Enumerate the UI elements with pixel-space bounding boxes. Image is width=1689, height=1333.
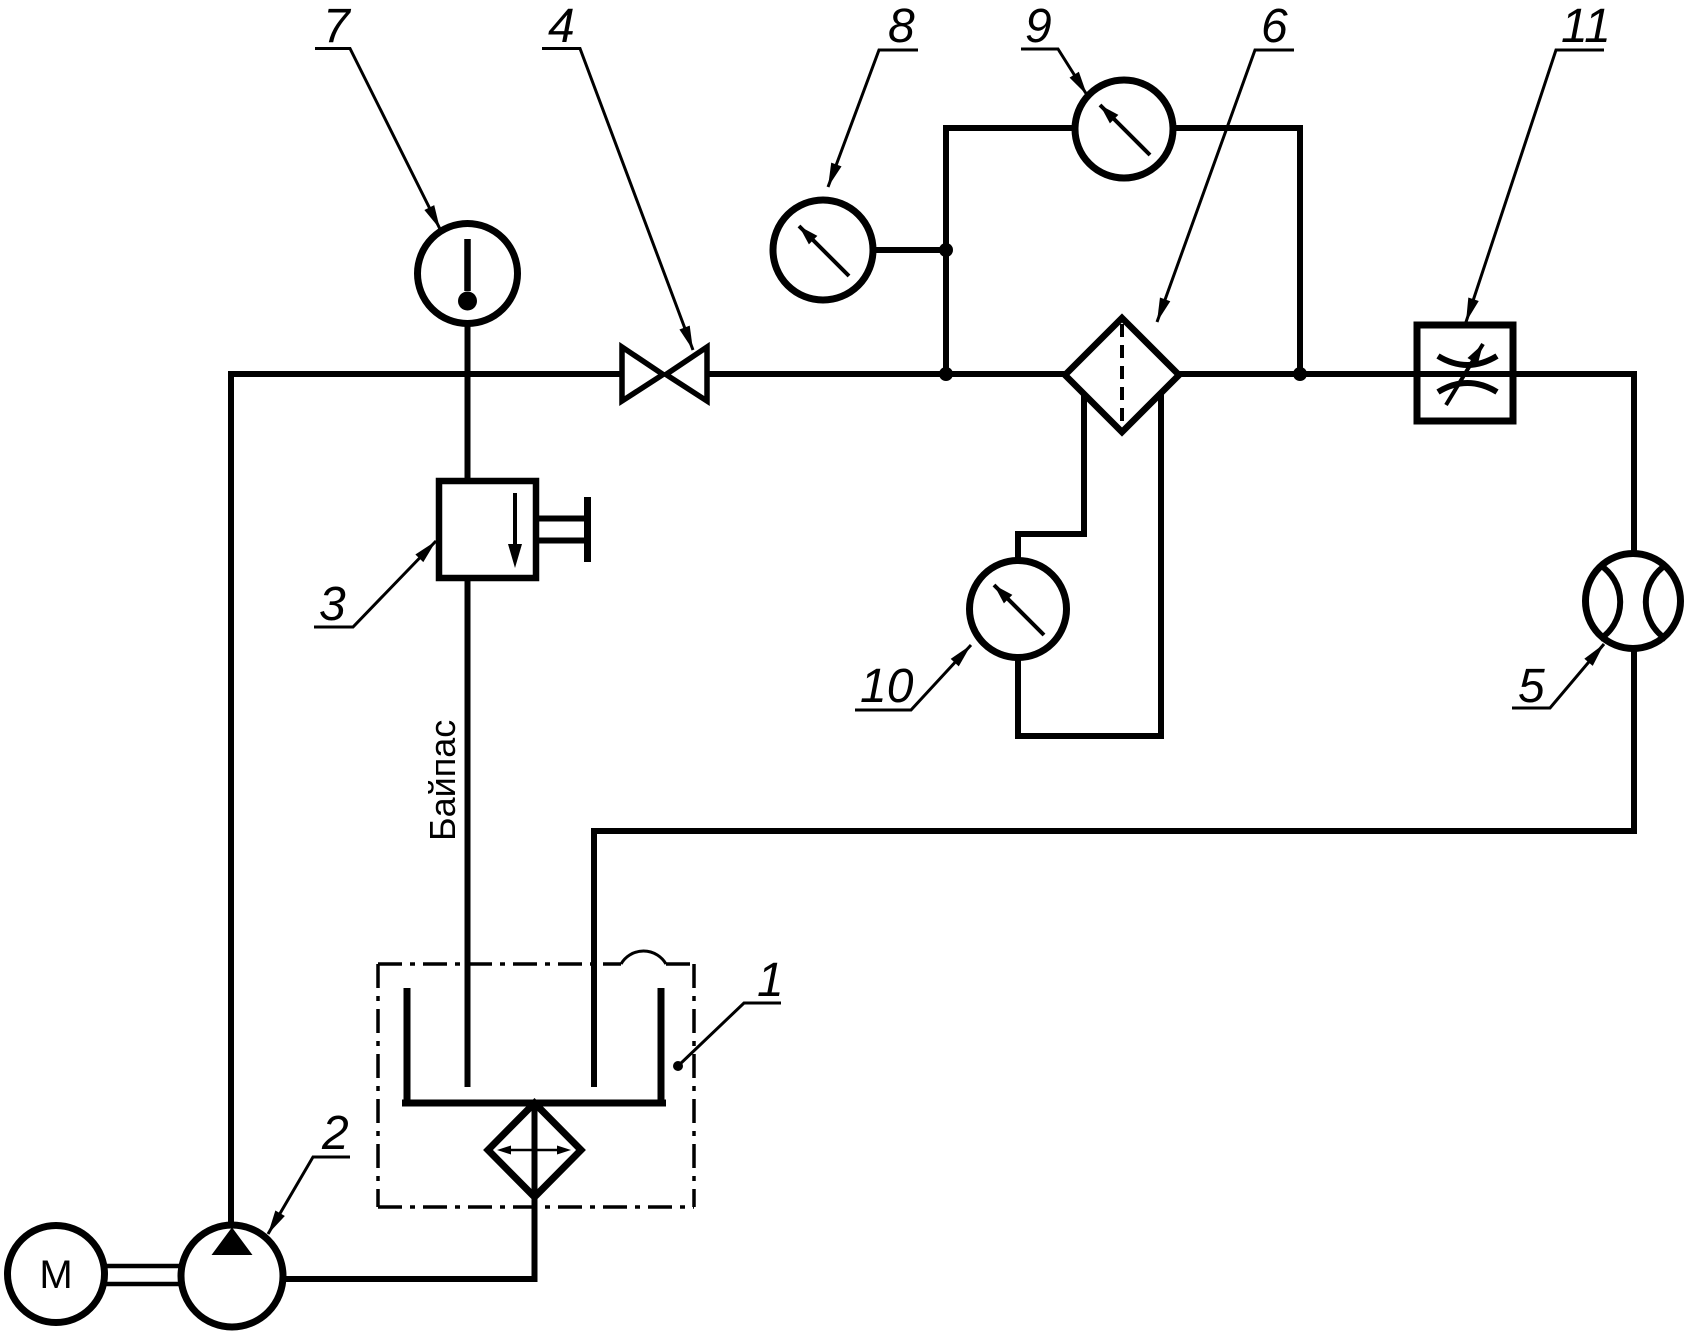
pump 2 xyxy=(181,1225,283,1327)
wire: main line left + left vertical down to pump xyxy=(231,374,622,1226)
filter 6 xyxy=(1065,318,1179,432)
throttle valve 11 xyxy=(1417,325,1513,421)
wire: bypass vertical from gauge 7 to device 3 xyxy=(465,322,471,482)
label 1 with leader and dot xyxy=(673,954,784,1071)
svg-text:3: 3 xyxy=(319,578,346,631)
wire: gauge 10 bottom loop to filter 6 right leg xyxy=(1018,392,1161,736)
svg-text:7: 7 xyxy=(323,0,352,53)
wire: tank outlet through filter to pump xyxy=(283,1103,535,1279)
node A: junction dot gauge 8 tap xyxy=(939,243,953,257)
svg-text:5: 5 xyxy=(1518,660,1545,713)
node C: junction dot loop right on main line xyxy=(1293,367,1307,381)
svg-text:6: 6 xyxy=(1261,0,1288,53)
tank 1 breather arc xyxy=(621,951,666,964)
svg-text:11: 11 xyxy=(1561,0,1611,53)
flow indicator 5 xyxy=(1586,554,1681,649)
label 2 with leader xyxy=(268,1107,350,1234)
svg-text:Байпас: Байпас xyxy=(422,720,463,841)
tank 1 dash-dot boundary xyxy=(378,964,694,1207)
svg-text:M: M xyxy=(39,1253,72,1297)
svg-text:9: 9 xyxy=(1025,0,1052,53)
wire: gauge 8 connector xyxy=(873,247,946,253)
svg-text:4: 4 xyxy=(548,0,575,53)
svg-text:10: 10 xyxy=(860,660,914,713)
device 3 (bypass unit) xyxy=(439,481,588,578)
label 9 with leader xyxy=(1021,0,1087,95)
tank 1 vessel xyxy=(402,988,666,1103)
label 11 with leader xyxy=(1466,0,1611,322)
label 7 with leader xyxy=(315,0,440,229)
svg-text:1: 1 xyxy=(757,954,784,1007)
wire: gauge loop right branch (gauge 9 to node on main line) xyxy=(1172,128,1300,374)
svg-text:2: 2 xyxy=(321,1107,349,1160)
label 6 with leader xyxy=(1157,0,1294,322)
wire: main line between valve 4 and filter 6 xyxy=(707,371,1066,377)
motor M xyxy=(8,1226,105,1323)
wire: main line right + right vertical upper xyxy=(1179,374,1634,554)
pressure gauge 9 xyxy=(1075,80,1173,178)
pressure gauge 8 xyxy=(773,200,873,300)
wire: bypass vertical from device 3 into tank xyxy=(465,577,471,1087)
wire: motor shaft double line xyxy=(104,1266,181,1284)
label 3 with leader xyxy=(314,541,436,631)
label 4 with leader xyxy=(542,0,693,350)
wire: right vertical lower + bottom return line + drop into tank xyxy=(594,648,1634,1087)
thermometer gauge 7 xyxy=(418,224,518,324)
wire: gauge loop left branch (node to top line to gauge 9) xyxy=(946,128,1076,374)
wire: filter 6 left leg to gauge 10 xyxy=(1018,393,1084,562)
label 10 with leader xyxy=(855,645,971,713)
label 5 with leader xyxy=(1512,644,1604,713)
label 8 with leader xyxy=(828,0,918,187)
pressure gauge 10 xyxy=(970,561,1067,658)
node B: junction dot loop left on main line xyxy=(939,367,953,381)
valve 4 xyxy=(622,347,707,401)
suction filter in tank xyxy=(488,1103,581,1197)
svg-text:8: 8 xyxy=(888,0,915,53)
